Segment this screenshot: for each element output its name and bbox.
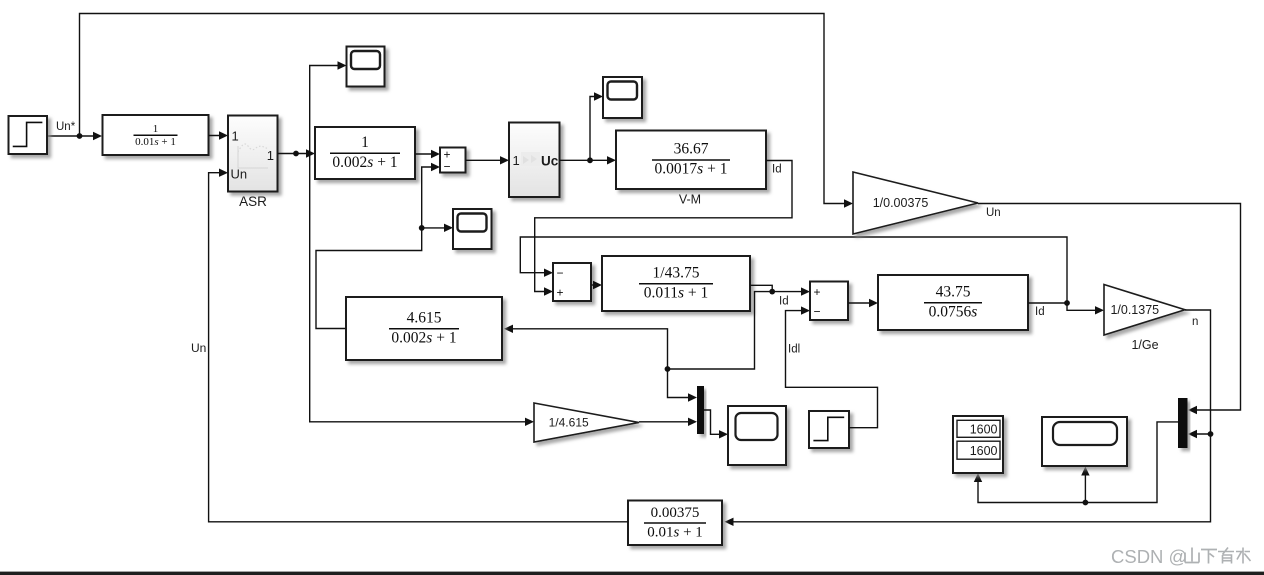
junction node scope5 tap xyxy=(1083,500,1089,506)
step source Un* step xyxy=(9,116,48,154)
wire: IdL step to sum S3 minus xyxy=(786,306,878,427)
scope Scope3 xyxy=(603,77,642,118)
gain 1/0.1375 (1/Ge) xyxy=(1104,285,1185,336)
svg-text:0.002s + 1: 0.002s + 1 xyxy=(332,154,397,171)
watermark CSDN xyxy=(1111,546,1251,567)
bottom border xyxy=(0,572,1264,575)
transfer fn 43.75/0.0756s xyxy=(878,275,1028,330)
mux M2 xyxy=(1178,398,1188,448)
svg-text:−: − xyxy=(813,305,820,319)
wire: 1/(0.002s+1) to sum S1 plus xyxy=(415,150,440,158)
svg-text:−: − xyxy=(443,160,450,174)
label 1/Ge xyxy=(1131,338,1158,352)
wire: tap to Scope3 xyxy=(590,92,603,160)
sum S3 xyxy=(810,282,848,321)
svg-text:43.75: 43.75 xyxy=(936,283,971,300)
wire: Id to 4.615/(0.002s+1) input xyxy=(504,325,668,369)
sum S2 xyxy=(553,263,591,301)
label Id (current) xyxy=(779,296,789,308)
wire: mux M2 to Display and Scope5 xyxy=(974,422,1178,503)
svg-text:1: 1 xyxy=(153,123,159,135)
gain 1/4.615 xyxy=(534,403,639,442)
svg-text:n: n xyxy=(1192,316,1198,328)
transfer fn (1/43.75)/(0.011s+1) xyxy=(602,256,750,311)
step source IdL step xyxy=(809,411,849,448)
transfer fn 1/(0.01s+1) xyxy=(103,115,209,155)
junction node Un* xyxy=(77,133,83,139)
svg-text:Un*: Un* xyxy=(56,121,76,133)
label Id (V-M output) xyxy=(772,164,782,176)
wire: Un to mux M2 in1 xyxy=(978,204,1241,415)
junction node n xyxy=(1208,431,1214,437)
svg-text:Un: Un xyxy=(986,207,1001,219)
wire: 1/43.75 out to sum S3 plus xyxy=(750,285,810,296)
svg-text:1/4.615: 1/4.615 xyxy=(549,416,589,430)
junction node Uc output xyxy=(587,157,593,163)
svg-text:−: − xyxy=(556,266,563,280)
wire: Id to mux M1 in1 xyxy=(668,369,698,402)
svg-text:36.67: 36.67 xyxy=(674,141,709,158)
svg-text:1/43.75: 1/43.75 xyxy=(653,264,700,281)
wire: Uc out to 36.67/(0.0017s+1) xyxy=(560,156,617,164)
wire: 4.615/(0.002s+1) out to sum S1 minus xyxy=(316,163,440,329)
svg-text:1: 1 xyxy=(232,129,239,144)
svg-text:V-M: V-M xyxy=(679,193,701,207)
wire: tap to Scope2 xyxy=(422,224,453,232)
label ASR xyxy=(239,194,267,209)
wire: branch to Scope1 xyxy=(310,61,347,153)
subsystem ASR xyxy=(228,116,278,192)
wire: gain 1/4.615 to mux M1 in2 xyxy=(639,418,697,426)
svg-text:+: + xyxy=(556,286,563,300)
junction node Id xyxy=(769,289,775,295)
svg-text:0.011s + 1: 0.011s + 1 xyxy=(644,284,709,301)
wire: top feedback Un* junction to gain 1/0.00375 xyxy=(80,14,854,208)
svg-text:Id: Id xyxy=(772,164,782,176)
svg-text:0.01s + 1: 0.01s + 1 xyxy=(647,525,703,541)
svg-text:1600: 1600 xyxy=(970,423,998,437)
svg-text:Uc: Uc xyxy=(541,154,559,169)
gain 1/0.00375 xyxy=(853,172,978,234)
wire: n out to mux M2 in2 and 0.00375/(0.01s+1) xyxy=(725,310,1211,526)
wire: sum S3 to 43.75/0.0756s xyxy=(848,299,878,307)
svg-text:0.01s + 1: 0.01s + 1 xyxy=(135,136,176,148)
svg-text:Id: Id xyxy=(779,296,789,308)
label Idl xyxy=(788,344,800,356)
svg-text:Id: Id xyxy=(1035,306,1045,318)
transfer fn 1/(0.002s+1) xyxy=(315,127,415,179)
wire: ASR out to 1/(0.002s+1) xyxy=(278,149,316,157)
wire: sum S1 to Uc subsystem xyxy=(466,156,510,164)
svg-text:4.615: 4.615 xyxy=(407,309,442,326)
svg-text:1: 1 xyxy=(267,148,274,163)
label n xyxy=(1192,316,1198,328)
svg-text:Un: Un xyxy=(191,341,206,355)
label Un (speed feedback) xyxy=(986,207,1001,219)
svg-text:0.0017s + 1: 0.0017s + 1 xyxy=(655,161,728,178)
wire: 1/(0.01s+1) to ASR in1 xyxy=(209,131,229,139)
junction node Scope2 tap xyxy=(419,225,425,231)
transfer fn 0.00375/(0.01s+1) xyxy=(628,501,722,546)
subsystem Uc (thyristor) xyxy=(509,123,560,198)
wire: Id branch down left xyxy=(668,292,773,369)
display 1600/1600 xyxy=(953,416,1003,473)
wire: Id feedback to sum S2 minus xyxy=(520,237,1067,303)
scope Scope1 xyxy=(347,47,385,87)
sum S1 xyxy=(440,148,466,174)
svg-text:0.002s + 1: 0.002s + 1 xyxy=(391,329,456,346)
scope Scope5 xyxy=(1042,417,1127,466)
junction node Id branch xyxy=(665,366,671,372)
svg-text:1: 1 xyxy=(513,153,520,168)
svg-text:0.0756s: 0.0756s xyxy=(929,303,978,320)
svg-text:1/0.00375: 1/0.00375 xyxy=(873,196,929,210)
svg-text:1: 1 xyxy=(361,134,369,151)
wire: sum S2 to 1/43.75 block xyxy=(591,281,602,289)
svg-text:+: + xyxy=(813,285,820,299)
mux M1 xyxy=(697,386,704,434)
label Un (feedback wire) xyxy=(191,341,206,355)
wire: 0.00375/(0.01s+1) to ASR Un input xyxy=(209,169,628,522)
label V-M xyxy=(679,193,701,207)
svg-text:0.00375: 0.00375 xyxy=(651,505,700,521)
svg-text:Un: Un xyxy=(231,167,248,182)
svg-text:Idl: Idl xyxy=(788,344,800,356)
label Un* xyxy=(56,121,76,133)
junction node Id output xyxy=(1064,300,1070,306)
transfer fn 4.615/(0.002s+1) xyxy=(346,297,502,360)
wire: V-M Id to sum S2 plus xyxy=(535,161,792,296)
wire: 43.75/0.0756s to gain 1/0.1375 xyxy=(1028,303,1104,315)
svg-text:1/0.1375: 1/0.1375 xyxy=(1110,303,1159,317)
wire: branch down to gain 1/4.615 xyxy=(310,154,534,427)
scope Scope4 xyxy=(728,406,786,465)
wire: step Un* to 1/(0.01s+1) xyxy=(47,132,102,140)
scope Scope2 xyxy=(453,209,492,249)
svg-text:ASR: ASR xyxy=(239,194,267,209)
svg-text:1600: 1600 xyxy=(970,444,998,458)
svg-text:CSDN @: CSDN @ xyxy=(1111,546,1187,567)
wire: mux M1 to Scope4 xyxy=(704,410,728,439)
transfer fn 36.67/(0.0017s+1) V-M xyxy=(616,131,766,190)
label Id (after 43.75 block) xyxy=(1035,306,1045,318)
junction node ASR output xyxy=(293,151,299,157)
svg-text:1/Ge: 1/Ge xyxy=(1131,338,1158,352)
